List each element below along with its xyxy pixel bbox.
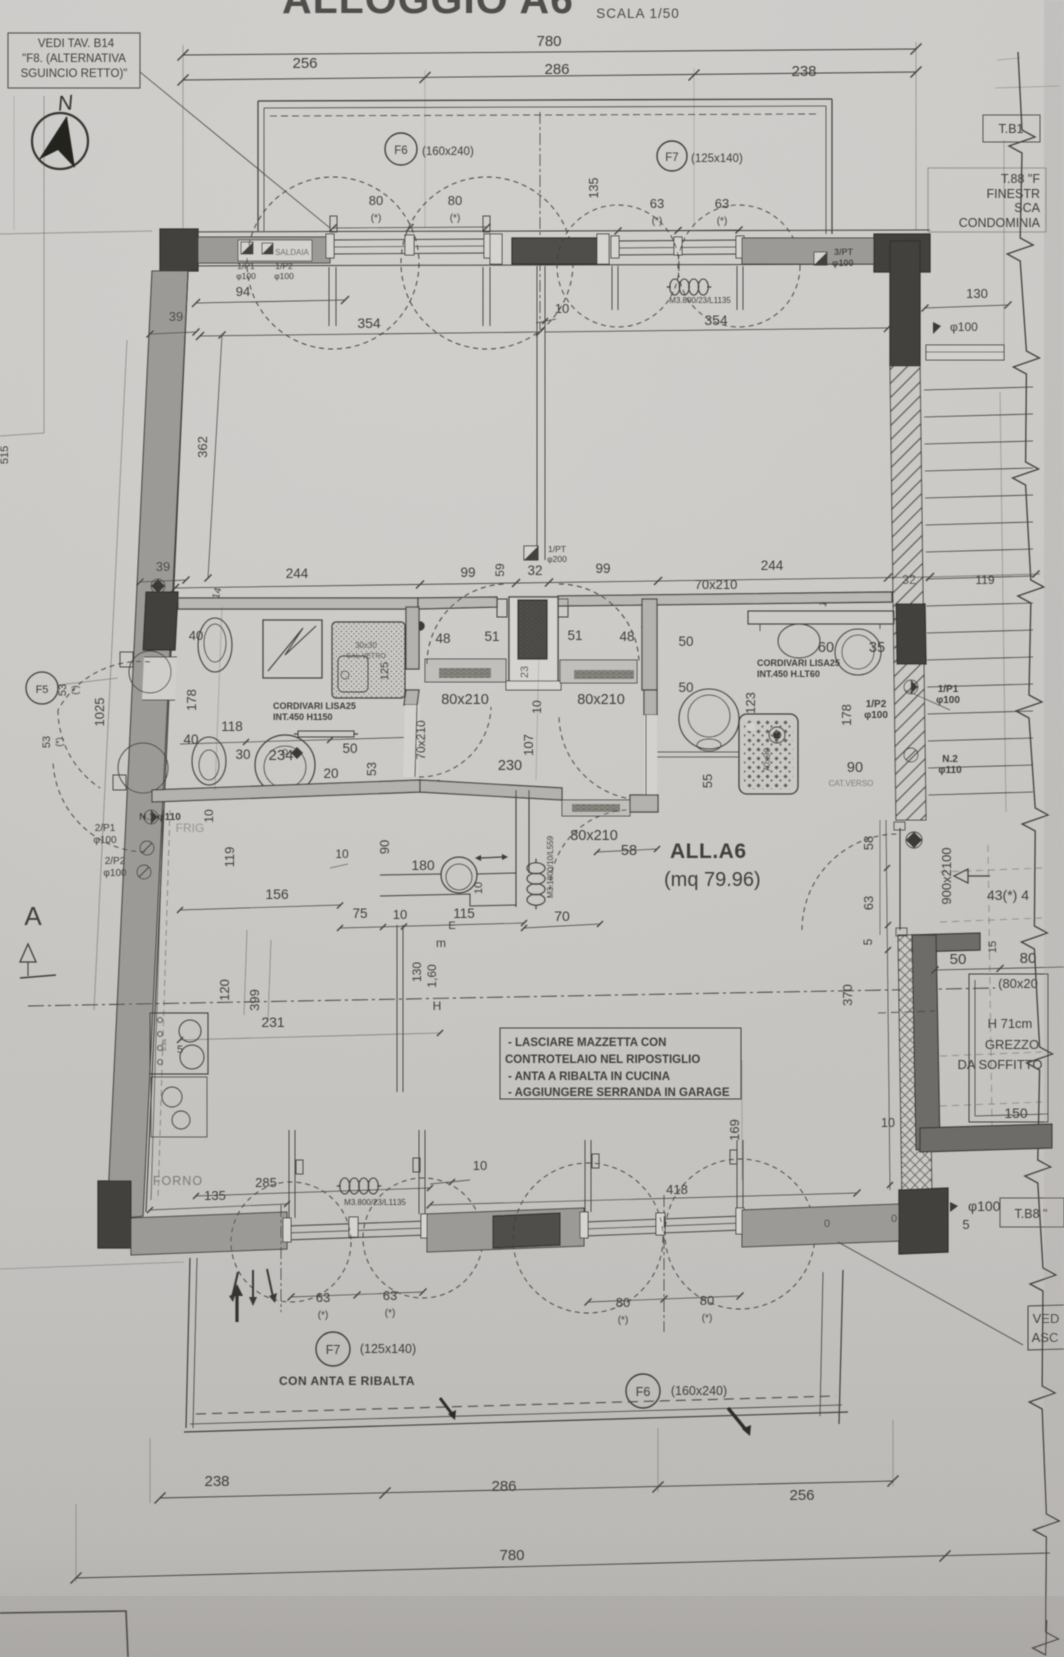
radiator bottom coil xyxy=(340,1178,350,1194)
main horizontal axis dash-dot xyxy=(28,988,995,1006)
door swing arc F7-right xyxy=(678,205,800,327)
bottom dark block xyxy=(493,1213,560,1248)
terrace left edge xyxy=(257,101,259,231)
right inner wall lines xyxy=(879,820,881,935)
middle dim ticks xyxy=(171,584,179,592)
F5 leader xyxy=(58,678,118,685)
F6 label circle top xyxy=(385,133,417,165)
wall stub right of door xyxy=(630,795,658,812)
left wall body xyxy=(107,271,188,1220)
jamb hooks bottom xyxy=(296,1160,303,1174)
hinge dot right xyxy=(642,623,651,632)
saldaia box xyxy=(238,240,312,261)
dim 354 right line xyxy=(545,328,888,332)
left wall inner edge line xyxy=(146,271,188,1212)
F6 label circle b xyxy=(626,1374,660,1408)
stairwell dashed grid h1 xyxy=(940,868,1042,872)
counter top line xyxy=(380,874,441,875)
window F7 reveal left xyxy=(611,266,613,310)
paper highlight xyxy=(0,0,1064,1100)
jamb profile left door L xyxy=(497,599,507,617)
hinge dot left xyxy=(416,622,425,631)
window F5 top frame xyxy=(144,656,177,658)
center pillar frame xyxy=(509,597,558,685)
cooktop burner2 xyxy=(180,1045,204,1069)
duct dot right3 xyxy=(904,748,918,762)
dim 780 top line xyxy=(183,49,916,55)
north needle filled xyxy=(40,117,75,168)
terrace bottom outer xyxy=(184,1412,848,1432)
dim 362 line xyxy=(208,335,222,578)
door swing dome left xyxy=(427,584,507,664)
dim chain 256/286/238 line xyxy=(183,72,916,80)
vanity support xyxy=(759,624,761,631)
right bath door swing xyxy=(559,715,644,800)
dim line 418 xyxy=(430,1193,857,1205)
corridor bottom wall W3b xyxy=(420,780,562,800)
duct circle on wall 1 xyxy=(129,651,171,693)
stairwell dashed grid h2 xyxy=(940,918,1042,922)
faint line left of terrace xyxy=(0,1262,184,1269)
kitchen sink circle xyxy=(441,857,477,893)
window F5 jamb bottom xyxy=(113,775,126,790)
right edge shading xyxy=(1044,0,1064,1657)
door lintel right band xyxy=(560,660,637,683)
right wall hatch upper xyxy=(890,366,926,820)
terrace bottom inner xyxy=(190,1405,842,1424)
bottom wall band R xyxy=(742,1204,900,1247)
right wall dark column top xyxy=(890,241,920,366)
window F6b swing R xyxy=(665,1159,815,1309)
right wall dark block mid xyxy=(896,604,926,664)
niche dark top arm xyxy=(912,933,980,952)
washbasin right 1 xyxy=(778,624,820,658)
vanity counter right xyxy=(748,611,894,624)
right bath door leaf xyxy=(645,715,647,795)
dark wall block top center xyxy=(512,238,597,264)
stairwell dashed grid v xyxy=(988,845,992,1125)
window F5 swing arc2 xyxy=(53,760,145,852)
dim line 58 xyxy=(597,849,657,852)
waste symbol diamond xyxy=(291,747,303,759)
dim line 80/80 xyxy=(333,227,487,228)
shower tray right xyxy=(739,714,798,794)
right wall crosshatch lower xyxy=(898,935,932,1200)
entry arrow xyxy=(968,875,990,877)
terrace right edge b xyxy=(839,1270,843,1424)
box T.B1 xyxy=(983,115,1040,142)
door 70 opening xyxy=(403,705,420,777)
window F6 reveal left xyxy=(328,267,330,326)
cooktop box xyxy=(150,1013,208,1074)
dim 94 line xyxy=(196,300,345,303)
bath wall vertical low xyxy=(404,690,419,705)
niche dash xyxy=(878,1011,935,1013)
tiny marks top right xyxy=(995,86,1060,88)
duct small symbol 1 xyxy=(151,579,165,593)
dim line 70 xyxy=(524,924,600,928)
bath wall vertical xyxy=(406,607,419,669)
dim line 285 xyxy=(196,1188,430,1196)
window F6 mullion xyxy=(405,235,414,255)
terrace bottom dashed xyxy=(196,1396,836,1414)
window F6 frame return left xyxy=(330,216,337,232)
saldaia icon2 xyxy=(262,243,273,254)
terrace right edge xyxy=(831,99,833,234)
window F7b sill lines xyxy=(287,1221,427,1226)
window F7 jamb left xyxy=(611,236,619,258)
jamb profile right door R xyxy=(558,599,568,617)
sink bowls xyxy=(162,1087,182,1107)
window F7 mullion xyxy=(674,237,682,255)
window F5 swing arc3 xyxy=(58,710,100,788)
window F6b sill lines xyxy=(584,1216,742,1222)
bottom axis dashdot 1 xyxy=(280,1205,282,1312)
counter step xyxy=(380,894,516,906)
washbasin circle big xyxy=(255,735,315,795)
window F7 sill lines xyxy=(615,240,742,241)
window F7b swing R xyxy=(363,1178,483,1298)
box VED xyxy=(1028,1305,1064,1350)
dim line 231 xyxy=(180,1033,440,1040)
stairwell dashed grid h3 xyxy=(940,1052,1042,1056)
pillar top-right xyxy=(874,234,930,272)
bath divider line xyxy=(657,751,739,753)
niche dim line xyxy=(935,967,1064,970)
dim 1025 line xyxy=(94,340,127,1010)
entry door opening lines xyxy=(896,819,926,821)
saldaia icon1 xyxy=(241,242,253,254)
center pillar threshold xyxy=(506,681,561,690)
top wall band A xyxy=(198,237,330,263)
north needle edge xyxy=(40,117,67,159)
wall W1 left segment xyxy=(178,598,418,609)
left margin vline xyxy=(43,96,45,433)
bidet ellipse xyxy=(192,737,226,785)
extension lines top dims xyxy=(182,45,184,232)
terrace left edge b xyxy=(186,1258,190,1428)
window F6b swing L xyxy=(513,1163,663,1313)
right bath door opening xyxy=(644,715,657,795)
left margin hline2 xyxy=(0,433,44,436)
bottom axis dashdot 2 xyxy=(663,1195,665,1332)
marker icon 3/PT xyxy=(814,252,827,265)
wall W1 right segment xyxy=(558,592,892,606)
leader from note box xyxy=(140,72,330,228)
towel radiator left xyxy=(298,731,354,737)
door 70 swing arc xyxy=(419,707,491,777)
double arrow xyxy=(481,857,502,858)
top wall band B xyxy=(742,238,874,264)
terrace top dashed line xyxy=(270,114,820,116)
radiator vertical coil xyxy=(527,863,545,874)
break line zigzag xyxy=(1007,52,1059,1655)
dim line 244 vertical ref xyxy=(215,607,222,790)
partition E lines xyxy=(396,925,398,1092)
sink unit box xyxy=(151,1077,207,1137)
north circle xyxy=(32,113,88,169)
radiator top center coil xyxy=(670,279,680,295)
wall jamb piece right of block xyxy=(597,234,609,264)
wall W1 mid segment xyxy=(418,597,497,609)
window F6 jamb left xyxy=(326,234,334,258)
shower left tray xyxy=(332,622,405,698)
washbasin top-left ellipse xyxy=(198,618,232,672)
washbasin right 2 xyxy=(835,629,881,675)
pillar bottom-left xyxy=(98,1181,131,1248)
window F6 frame return right xyxy=(483,216,490,232)
dim line 135 xyxy=(150,1204,287,1210)
window F5 jamb top xyxy=(120,652,133,667)
dim 156 line xyxy=(180,905,340,910)
window F7 jamb right xyxy=(736,236,744,258)
niche dark vertical xyxy=(912,935,940,1150)
stairwell dashed grid h4 xyxy=(940,1102,1042,1106)
staircase steps xyxy=(924,387,1033,390)
window F6b frame return L xyxy=(584,1140,586,1212)
door swing dome right xyxy=(559,584,639,664)
terrace top outer line xyxy=(258,99,832,101)
window F6 sill lines xyxy=(330,239,490,240)
service duct lines xyxy=(536,266,538,560)
dim line 63/63 xyxy=(618,230,739,231)
door lintel bottom band xyxy=(562,800,630,816)
axis dashed center top xyxy=(539,112,541,330)
window F6 jamb right xyxy=(484,234,492,258)
corridor right wall mid xyxy=(644,690,657,715)
kitchen dim line xyxy=(340,923,524,928)
dim line 63b xyxy=(291,1292,423,1297)
duct dot right4 xyxy=(906,832,922,848)
door swing arc F6-right xyxy=(401,177,573,349)
center pillar dark xyxy=(518,600,547,659)
dim 130 right xyxy=(925,305,1008,308)
F7 label circle top xyxy=(657,141,687,171)
F5 label circle xyxy=(26,672,58,704)
duct circle on wall 2 xyxy=(118,743,168,793)
cooktop knobs xyxy=(158,1018,163,1023)
window F7b frame return L xyxy=(288,1130,290,1218)
top right vline xyxy=(1003,140,1005,360)
left margin vline2 xyxy=(13,96,15,230)
note box lasciare xyxy=(500,1028,741,1099)
dim 354 left line xyxy=(200,332,540,336)
dim line bath xyxy=(180,737,420,744)
corridor right wall upper xyxy=(642,599,657,690)
pen arrows cluster xyxy=(232,1272,238,1298)
bottom wall band M xyxy=(427,1208,584,1252)
kitchen counter edge xyxy=(151,810,163,1200)
door swing bottom xyxy=(550,810,630,890)
niche dark bottom arm xyxy=(920,1124,1052,1152)
top wall base line xyxy=(160,230,930,232)
duct dot right1 xyxy=(904,680,918,694)
dim line v kitchen2 xyxy=(268,940,271,1020)
window F6b jamb R xyxy=(736,1208,744,1234)
entry door leaf xyxy=(899,828,901,930)
pen mark 2 xyxy=(728,1408,746,1430)
window F6 reveal right xyxy=(482,267,484,326)
left wall pillar xyxy=(143,592,178,650)
stair landing window xyxy=(926,345,1004,360)
dim 169 line xyxy=(741,1060,743,1180)
entry door swing arc xyxy=(802,834,898,930)
wall stub kitchen v xyxy=(515,790,517,907)
window F7 reveal right xyxy=(736,266,738,310)
left margin hline1 xyxy=(0,231,152,234)
section arrow A xyxy=(20,944,36,962)
wall jamb piece left of block xyxy=(490,234,502,264)
window F6b jamb L xyxy=(580,1212,588,1238)
niche inner rect xyxy=(969,974,1048,1122)
door swing arc F6-left xyxy=(247,177,419,349)
duct dot right2 xyxy=(769,727,785,743)
leader 1P2 xyxy=(905,690,950,710)
pen mark 1 xyxy=(440,1398,452,1414)
note box VEDI TAV xyxy=(8,33,140,88)
bottom left ext xyxy=(75,1504,77,1582)
bottom-left box xyxy=(0,1611,128,1657)
box TB8 bottom xyxy=(1000,1198,1064,1227)
window F5 opening xyxy=(142,657,177,700)
vignette bottom xyxy=(0,1596,1064,1657)
cooktop burner1 xyxy=(179,1020,201,1042)
middle dim line xyxy=(175,577,930,588)
window F6b mullion xyxy=(656,1213,665,1235)
window F7b swing L xyxy=(231,1182,351,1302)
toilet right xyxy=(679,689,739,749)
duct small symbol 4 xyxy=(137,865,151,879)
small circle shower xyxy=(341,671,349,679)
boiler square xyxy=(263,620,322,678)
stair handrail xyxy=(1000,392,1006,812)
door lintel left band xyxy=(425,659,506,682)
duct small symbol 3 xyxy=(140,841,154,855)
dim line v kitchen1 xyxy=(244,930,247,1015)
terrace top inner line xyxy=(264,106,826,108)
bottom dim line 1 xyxy=(160,1481,893,1498)
bottom ext lines xyxy=(149,1438,151,1503)
bath bottom wall W3 xyxy=(152,780,420,802)
leader to VED xyxy=(838,1242,1023,1345)
pillar bottom-right xyxy=(899,1188,948,1254)
window F5 swing arc1 xyxy=(58,661,150,710)
door swing arc F7-left xyxy=(557,205,679,327)
bottom wall band L xyxy=(131,1212,287,1255)
bottom dim line 780 xyxy=(76,1553,1050,1578)
window F7b jamb R xyxy=(421,1214,429,1238)
window F7b jamb L xyxy=(283,1218,291,1242)
corridor dim line v xyxy=(536,607,540,780)
window F7b mullion xyxy=(349,1217,358,1237)
box condominia xyxy=(928,168,1046,232)
window F6b frame return R xyxy=(736,1140,738,1208)
top wall bottom edge xyxy=(160,264,930,266)
marker 1/PT xyxy=(524,546,538,560)
right dim line v xyxy=(886,820,890,1190)
dim line 80b xyxy=(588,1296,740,1302)
window F7b frame return R xyxy=(418,1130,420,1214)
duct small symbol 2 xyxy=(144,810,158,824)
pillar top-left xyxy=(160,229,198,271)
door 70 leaf xyxy=(415,705,417,777)
F7 label circle b xyxy=(316,1332,350,1366)
